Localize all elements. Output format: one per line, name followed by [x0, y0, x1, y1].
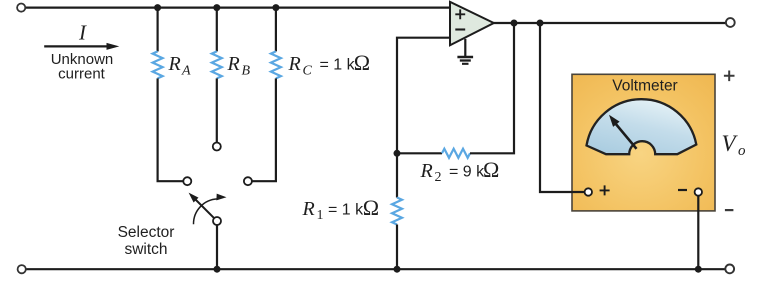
svg-text:R: R [168, 53, 181, 75]
svg-text:Ω: Ω [483, 157, 499, 182]
switch SW1 rotation arrow [193, 199, 217, 224]
wire op-amp inverting input to feedback node [397, 38, 450, 154]
resistor RB [212, 51, 222, 78]
svg-text:o: o [738, 143, 746, 159]
terminal input top left [17, 4, 25, 12]
terminal bottom right [725, 265, 734, 274]
svg-text:Selector: Selector [118, 224, 175, 241]
node R1 / bottom rail junction [394, 266, 401, 273]
switch SW1 left contact [183, 177, 191, 185]
wire R2 to op-amp output [470, 23, 514, 153]
resistor R2 [442, 149, 470, 158]
svg-text:R: R [302, 198, 315, 220]
label output plus [724, 71, 735, 82]
resistor RC [271, 51, 281, 78]
node top rail / RC junction [272, 4, 279, 11]
wire switch pole to bottom rail [216, 225, 218, 269]
current arrow I [44, 45, 107, 47]
wire RB branch top [216, 8, 218, 52]
svg-text:switch: switch [124, 241, 167, 258]
wire top rail (input node to op-amp + input) [26, 6, 451, 8]
switch SW1 pole [213, 217, 221, 225]
svg-text:C: C [303, 64, 313, 79]
svg-text:R: R [227, 53, 240, 75]
resistor R1 bottom lead [396, 225, 398, 270]
wire op-amp output rail [493, 22, 725, 24]
svg-text:Ω: Ω [363, 195, 379, 220]
svg-text:I: I [78, 21, 87, 45]
node top rail / RB junction [213, 4, 220, 11]
svg-text:R: R [288, 53, 301, 75]
switch SW1 wiper arm [195, 199, 214, 218]
svg-text:Voltmeter: Voltmeter [612, 78, 677, 95]
svg-text:V: V [722, 131, 739, 156]
wire voltmeter minus terminal to bottom rail [697, 196, 699, 270]
wire bottom rail [26, 268, 725, 270]
voltmeter plus marking [600, 185, 610, 195]
svg-text:current: current [58, 66, 106, 83]
node output / R2 junction [511, 20, 518, 27]
voltmeter minus marking [678, 189, 687, 191]
ground [464, 39, 466, 57]
svg-text:A: A [181, 64, 191, 79]
voltmeter plus terminal [585, 188, 592, 195]
node output / voltmeter junction [537, 20, 544, 27]
wire RC branch top [275, 8, 277, 52]
svg-text:= 1 k: = 1 k [320, 57, 356, 74]
voltmeter minus terminal [695, 188, 702, 195]
svg-text:1: 1 [317, 208, 324, 223]
node switch pole / bottom rail junction [214, 266, 221, 273]
terminal output top right [726, 18, 735, 27]
voltmeter gauge scale [587, 99, 697, 154]
op-amp U1 [450, 2, 494, 46]
switch SW1 right contact [244, 177, 252, 185]
resistor R1 top lead [396, 153, 398, 197]
svg-text:Ω: Ω [354, 50, 370, 75]
wire output to voltmeter plus terminal [540, 23, 585, 192]
svg-text:= 9 k: = 9 k [449, 164, 485, 181]
wire feedback node to R2 [397, 152, 442, 154]
svg-text:R: R [420, 160, 433, 182]
node voltmeter minus / bottom rail junction [695, 266, 702, 273]
voltmeter M1 body [572, 74, 715, 211]
terminal bottom left [18, 265, 26, 273]
voltmeter needle [615, 123, 637, 149]
wire RA branch bottom to left switch contact [158, 78, 184, 181]
label output minus [725, 209, 734, 211]
resistor RA [153, 51, 163, 78]
wire RB branch bottom to centre switch contact [216, 78, 218, 142]
svg-text:B: B [242, 64, 251, 79]
wire RA branch top [157, 8, 159, 52]
wire RC branch bottom to right switch contact [252, 78, 276, 181]
node top rail / RA junction [154, 4, 161, 11]
node feedback summing junction [394, 150, 401, 157]
svg-text:= 1 k: = 1 k [328, 202, 364, 219]
resistor R1 [392, 198, 402, 225]
switch SW1 centre contact [213, 143, 221, 151]
svg-text:2: 2 [435, 170, 442, 185]
